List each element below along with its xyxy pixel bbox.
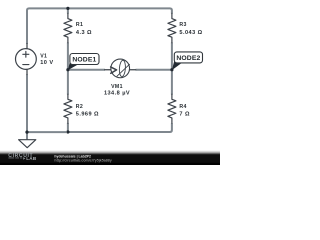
wire: NODE2 junction down to R4 top [171, 70, 173, 95]
svg-text:R2: R2 [76, 104, 83, 110]
wire: left branch below V1 down to ground junction [26, 74, 28, 132]
wire: R1 top stub [67, 8, 69, 13]
svg-text:V1: V1 [40, 54, 47, 60]
svg-text:7 Ω: 7 Ω [179, 111, 190, 117]
svg-text:R3: R3 [179, 22, 186, 28]
wire: R2 bottom stub [67, 123, 69, 132]
svg-text:R4: R4 [179, 104, 186, 110]
svg-text:NODE2: NODE2 [176, 55, 200, 62]
svg-text:5.969 Ω: 5.969 Ω [76, 111, 99, 117]
svg-text:LAB: LAB [26, 156, 37, 161]
ground [19, 140, 36, 148]
wire: NODE1 junction down to R2 top [67, 70, 69, 95]
footer logo dashes [8, 157, 22, 159]
voltmeter VM1 [105, 59, 136, 78]
wire: voltmeter right lead to NODE2 junction [136, 69, 172, 71]
wire: bottom rail from ground junction to R4 branch [27, 123, 172, 132]
junction dot R2 bottom [66, 130, 69, 133]
footer bar [0, 150, 220, 165]
svg-text:4.3 Ω: 4.3 Ω [76, 30, 92, 36]
resistor R2 [64, 94, 72, 123]
resistor R3 [168, 13, 176, 42]
wire: NODE1 junction to voltmeter left lead [68, 69, 105, 71]
junction dot top R1 [66, 7, 69, 10]
resistor R4 [168, 94, 176, 123]
resistor R1 [64, 13, 72, 42]
svg-text:VM1: VM1 [111, 84, 123, 90]
node NODE2 flag [172, 52, 203, 70]
wire: ground stub [26, 132, 28, 139]
wire: R1 bottom to NODE1 junction [67, 43, 69, 70]
svg-text:10 V: 10 V [40, 60, 53, 66]
wire: top rail from V1 branch to R3 branch [27, 8, 172, 44]
junction dot NODE1 [66, 68, 69, 71]
svg-text:NODE1: NODE1 [72, 57, 96, 64]
svg-text:http://circuitlab.com/c/7y5jk5: http://circuitlab.com/c/7y5jk5a88y [54, 159, 111, 163]
voltage source V1 [16, 44, 37, 75]
svg-text:R1: R1 [76, 22, 83, 28]
svg-text:5.043 Ω: 5.043 Ω [179, 30, 202, 36]
wire: R3 bottom to NODE2 junction [171, 43, 173, 70]
junction dot NODE2 [170, 68, 173, 71]
junction dot ground [25, 131, 28, 134]
node NODE1 flag [68, 54, 99, 71]
svg-text:134.8 µV: 134.8 µV [104, 91, 130, 97]
